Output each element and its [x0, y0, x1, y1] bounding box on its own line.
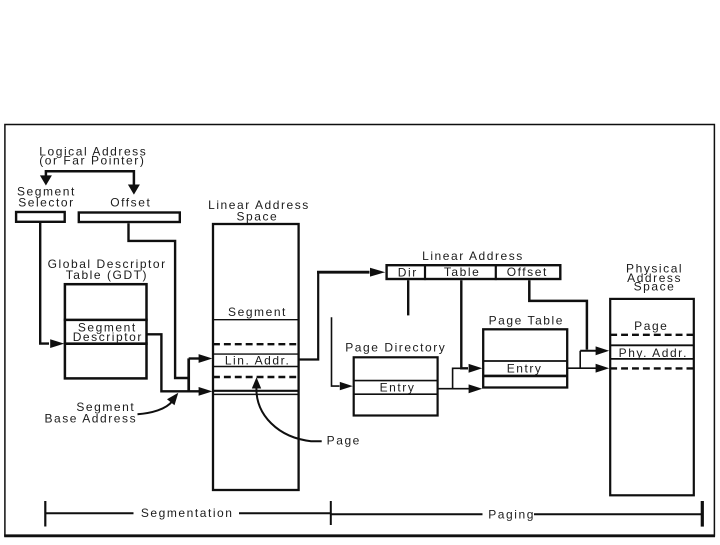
box: Segment Selector — [16, 212, 65, 222]
label: Segment Selector — [17, 185, 76, 210]
outer frame — [4, 125, 715, 536]
label: Offset (linear address field) — [507, 265, 548, 279]
box: Physical Address Space — [610, 299, 694, 495]
svg-text:Selector: Selector — [18, 196, 74, 210]
wire: curved pointer from Segment Base Address label — [138, 401, 173, 414]
svg-text:Table: Table — [444, 265, 480, 279]
arrow: into Page Table lower left — [469, 384, 483, 393]
arrow: base address into linear space — [199, 387, 213, 396]
label: Linear Address — [422, 249, 524, 263]
svg-text:Paging: Paging — [488, 507, 535, 521]
label: Physical Address Space — [626, 262, 683, 294]
label: Segment Descriptor — [73, 321, 143, 345]
label: Segmentation — [141, 506, 234, 520]
wire: offset down and over — [129, 223, 189, 378]
svg-text:Entry: Entry — [507, 361, 543, 375]
svg-text:Phy. Addr.: Phy. Addr. — [619, 346, 688, 360]
wire: pt entry out — [567, 367, 596, 369]
label: Segment (linear space) — [228, 305, 287, 319]
label: Offset — [110, 196, 151, 210]
svg-text:Page: Page — [634, 319, 668, 333]
wire: selector down to GDT — [40, 223, 49, 344]
label: Global Descriptor Table (GDT) — [48, 257, 167, 282]
label: Page Table — [489, 314, 564, 328]
box: GDT — [64, 284, 148, 378]
wire: offset arrow line — [580, 350, 596, 352]
arrow: up-right to base address line — [167, 393, 178, 406]
wire: segmentation bracket left tick — [44, 501, 46, 527]
svg-text:Page Table: Page Table — [489, 314, 564, 328]
box: Linear Address Space — [213, 224, 299, 490]
svg-text:Entry: Entry — [380, 380, 416, 394]
arrow: into Page Table entry row — [469, 364, 483, 373]
wire: paging bracket line — [331, 513, 703, 515]
label: Entry (page directory) — [380, 380, 416, 394]
wire: Offset field drop to physical space — [529, 280, 587, 349]
wire: logical address split bracket — [46, 171, 134, 185]
wire: pd entry out — [438, 388, 469, 390]
label: Dir — [398, 265, 418, 279]
wire: middle tick — [330, 501, 332, 525]
svg-text:Linear Address: Linear Address — [422, 249, 524, 263]
wire: junction vertical — [187, 358, 190, 391]
wire: thin link offset to pt entry line — [579, 351, 581, 368]
label: Segment Base Address — [44, 400, 137, 425]
svg-text:Offset: Offset — [110, 196, 151, 210]
wire: into Lin. Addr. row — [189, 357, 200, 359]
wire: step link from pd entry line up to table line — [453, 368, 462, 388]
wire: paging bracket right tick — [701, 501, 704, 527]
svg-text:Space: Space — [237, 210, 279, 224]
box: Offset — [79, 213, 180, 223]
wire: segmentation bracket line — [45, 512, 331, 514]
svg-text:Table (GDT): Table (GDT) — [66, 268, 148, 282]
arrow: into Dir|Table|Offset box — [370, 268, 385, 277]
label: Linear Address Space — [208, 198, 310, 224]
arrow: up into page row — [252, 377, 261, 388]
wire: segment base address path — [147, 334, 199, 391]
svg-text:(or Far Pointer): (or Far Pointer) — [39, 153, 145, 167]
arrow: into Page Directory entry — [340, 382, 353, 390]
label: Phy. Addr. — [619, 346, 688, 360]
svg-text:Base Address: Base Address — [44, 411, 137, 425]
svg-text:Descriptor: Descriptor — [73, 330, 143, 344]
arrow: into GDT segment descriptor — [50, 339, 64, 348]
wire: page directory feed — [332, 317, 340, 386]
label: Page (physical space) — [634, 319, 668, 333]
arrow: into Lin. Addr. — [199, 354, 213, 363]
box: Dir | Table | Offset — [387, 264, 561, 280]
svg-text:Page Directory: Page Directory — [345, 340, 446, 354]
label: Logical Address (or Far Pointer) — [39, 145, 147, 168]
wire: curved pointer from Page label — [256, 389, 321, 442]
label: Table — [444, 265, 480, 279]
label: Lin. Addr. — [225, 354, 291, 368]
box: Page Table — [483, 329, 567, 387]
svg-text:Segmentation: Segmentation — [141, 506, 234, 520]
svg-text:Segment: Segment — [228, 305, 287, 319]
arrow: into physical space below row — [596, 364, 610, 373]
wire: Lin Addr row to Linear Address box — [299, 272, 370, 360]
svg-text:Lin. Addr.: Lin. Addr. — [225, 354, 291, 368]
box: Page Directory — [354, 357, 438, 415]
svg-text:Space: Space — [634, 280, 676, 294]
arrow: into Phy. Addr. row — [596, 346, 610, 355]
label: Paging — [488, 507, 535, 521]
svg-text:Offset: Offset — [507, 265, 548, 279]
label: Page Directory — [345, 340, 446, 354]
arrow: down into Segment Selector — [40, 175, 52, 185]
svg-text:Page: Page — [327, 433, 361, 447]
wire: Dir field drop — [407, 280, 409, 315]
wire: Table field drop — [461, 280, 468, 368]
arrow: down into Offset — [128, 185, 140, 195]
label: Entry (page table) — [507, 361, 543, 375]
svg-text:Dir: Dir — [398, 265, 418, 279]
label: Page (pointer to page in linear space) — [327, 433, 361, 447]
